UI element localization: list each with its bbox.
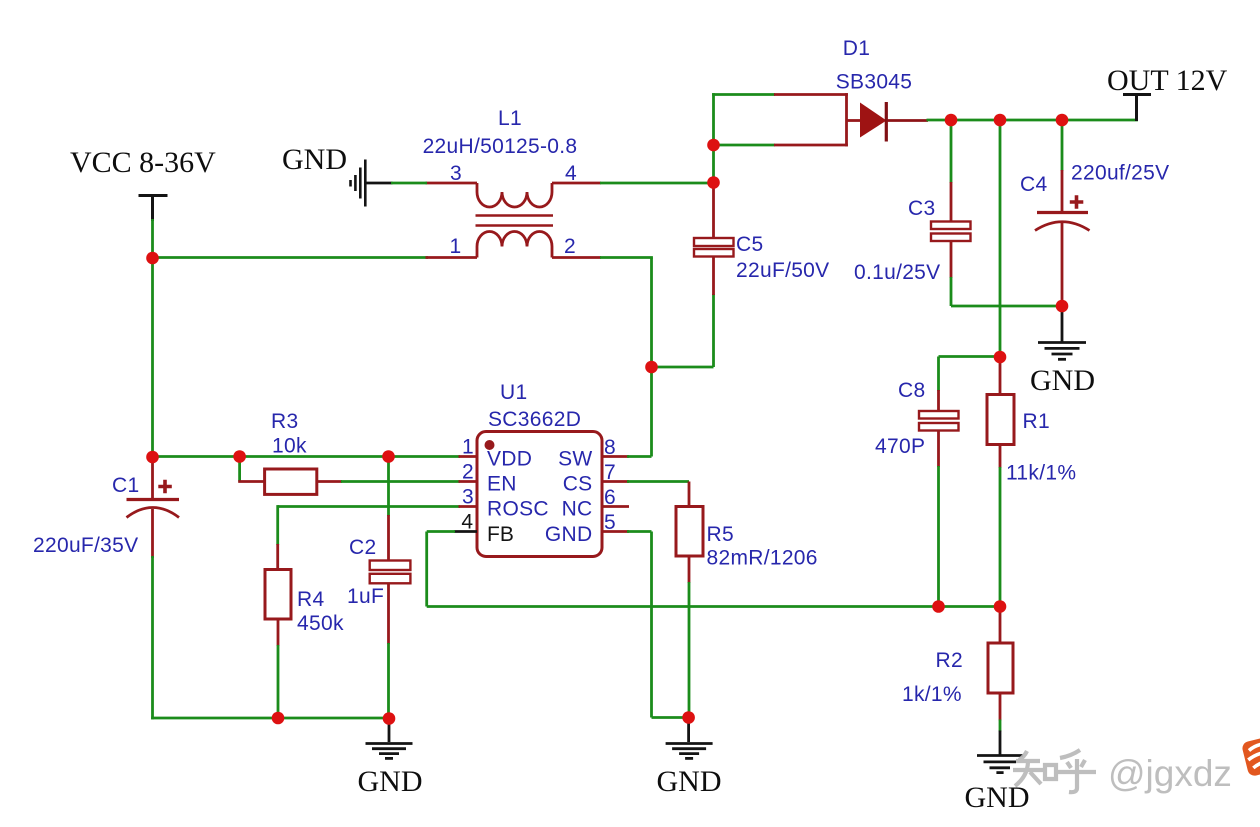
diode D1 cathode lead [886, 119, 928, 122]
svg-text:4: 4 [565, 162, 577, 185]
U1 pin 6 stub [602, 505, 629, 508]
U1 pin 4 stub (black) [454, 530, 477, 533]
junction dot OUT rail middle [994, 114, 1007, 127]
svg-text:0.1u/25V: 0.1u/25V [854, 261, 940, 284]
svg-text:CS: CS [563, 473, 593, 496]
svg-text:SC3662D: SC3662D [488, 408, 581, 431]
svg-text:22uF/50V: 22uF/50V [736, 259, 829, 282]
svg-text:R3: R3 [271, 410, 298, 433]
wire U1 pin8 SW to vertical riser [627, 455, 652, 458]
wire U1 pin5 GND to riser [627, 530, 652, 533]
junction dot C4 ground node [1056, 300, 1069, 313]
wire FB vertical drop [425, 532, 428, 607]
svg-text:3: 3 [462, 486, 474, 509]
resistor R4 [265, 505, 291, 646]
svg-text:C2: C2 [349, 536, 376, 559]
svg-text:22uH/50125-0.8: 22uH/50125-0.8 [423, 135, 578, 158]
svg-text:L1: L1 [498, 107, 522, 130]
wire R5 bottom to ground [688, 582, 691, 718]
wire pin5 vertical down [650, 532, 653, 718]
wire L1 pin2 to SW riser [600, 256, 653, 259]
svg-text:ROSC: ROSC [487, 498, 549, 521]
U1 pin 1 stub [459, 455, 478, 458]
svg-text:R2: R2 [936, 649, 963, 672]
svg-text:450k: 450k [297, 612, 344, 635]
svg-text:470P: 470P [875, 435, 925, 458]
svg-text:SW: SW [558, 448, 592, 471]
U1 pin 5 stub [602, 530, 629, 533]
wire GND symbol to L1 pin3 [391, 182, 427, 185]
wire R3 to U1 pin2 [341, 480, 460, 483]
wire VCC terminal to junction [151, 219, 154, 258]
IC U1 body [477, 432, 602, 557]
inductor L1 top winding pin lines [426, 182, 602, 185]
wire R1 bottom to FB node [999, 467, 1002, 608]
wire FB long horizontal to divider [427, 605, 1000, 608]
svg-text:8: 8 [604, 436, 616, 459]
svg-text:R4: R4 [297, 588, 324, 611]
diode D1 triangle [860, 103, 887, 138]
wire C3 to C4 ground node [951, 305, 1062, 308]
resistor R1 [987, 357, 1014, 468]
wire C8 branch horizontal [939, 355, 1001, 358]
wire D1 cathode to OUT [927, 119, 1138, 122]
wire C8 bottom to FB node [937, 466, 940, 607]
wire R4 bottom to ground rail [277, 645, 280, 718]
junction dot C2 tap [382, 450, 395, 463]
junction dot R4 ground rail [272, 712, 285, 725]
U1 pin-1 marker dot [485, 440, 495, 450]
svg-text:GND: GND [358, 765, 423, 798]
ground symbol under U1/R5 [666, 718, 713, 759]
inductor L1 core lines [476, 216, 554, 226]
svg-text:GND: GND [1030, 364, 1095, 397]
svg-text:NC: NC [562, 498, 593, 521]
capacitor C3 [931, 120, 971, 278]
U1 pin 2 stub [459, 480, 478, 483]
svg-text:1uF: 1uF [347, 585, 384, 608]
svg-text:D1: D1 [843, 37, 870, 60]
wire VCC rail vertical [151, 258, 154, 458]
wire loop bottom green part [712, 144, 775, 147]
wire SW node to C5 branch [652, 366, 714, 369]
wire loop top green part [712, 93, 775, 96]
junction dot VCC top [146, 252, 159, 265]
svg-text:11k/1%: 11k/1% [1006, 462, 1076, 485]
watermark 乎 character [1058, 750, 1096, 792]
svg-text:3: 3 [450, 162, 462, 185]
wire loop left vertical [712, 93, 715, 145]
U1 pin 3 stub [459, 505, 478, 508]
wire OUT rail down the middle branch [999, 120, 1002, 358]
svg-text:5: 5 [604, 511, 616, 534]
svg-text:U1: U1 [500, 381, 527, 404]
svg-text:C1: C1 [112, 474, 139, 497]
svg-text:7: 7 [604, 461, 616, 484]
capacitor C8 [919, 357, 959, 468]
diode D1 body loop dark segments [774, 93, 848, 146]
svg-text:C4: C4 [1020, 173, 1047, 196]
svg-text:R5: R5 [707, 523, 734, 546]
svg-text:2: 2 [564, 235, 576, 258]
svg-text:4: 4 [461, 511, 473, 534]
inductor L1 top winding [477, 183, 552, 207]
wire bottom ground rail [151, 717, 389, 720]
capacitor C2 [370, 457, 411, 645]
svg-text:VCC 8-36V: VCC 8-36V [70, 146, 216, 179]
wire L1 pin4 to C5 node [600, 182, 714, 185]
wire FB pin4 to the left [427, 530, 455, 533]
svg-text:220uf/25V: 220uf/25V [1071, 162, 1169, 185]
svg-text:1: 1 [450, 235, 462, 258]
junction dot FB C8 [932, 600, 945, 613]
junction dot C8 branch [994, 351, 1007, 364]
ground symbol at L1 pin3 (rotated) [351, 160, 393, 207]
inductor L1 bottom winding [477, 232, 552, 258]
svg-text:C8: C8 [898, 379, 925, 402]
junction dot FB divider [994, 600, 1007, 613]
svg-text:220uF/35V: 220uF/35V [33, 534, 138, 557]
U1 pin 7 stub [602, 480, 629, 483]
svg-text:10k: 10k [272, 435, 307, 458]
junction dot R3 tap [233, 450, 246, 463]
svg-text:6: 6 [604, 486, 616, 509]
svg-text:2: 2 [462, 461, 474, 484]
node OUT: terminal [1123, 95, 1151, 122]
svg-text:R1: R1 [1023, 410, 1050, 433]
junction dot pin5 ground [682, 711, 695, 724]
junction dot C5 top node [707, 176, 720, 189]
svg-text:EN: EN [487, 473, 517, 496]
wire C5 node up to loop corner [712, 144, 715, 183]
inductor L1 bottom winding pin lines [426, 256, 602, 259]
svg-text:GND: GND [965, 781, 1030, 814]
svg-text:1: 1 [462, 436, 474, 459]
wire C3 bottom [950, 277, 953, 306]
svg-text:82mR/1206: 82mR/1206 [707, 547, 818, 570]
junction dot OUT rail C4 [1056, 114, 1069, 127]
wire C1 bottom to ground rail [151, 556, 154, 719]
junction dot SW node [645, 361, 658, 374]
wire SW riser vertical [650, 258, 653, 457]
junction dot VDD rail left [146, 451, 159, 464]
junction dot loop bottom corner [707, 139, 720, 152]
capacitor C4 [1035, 120, 1090, 307]
svg-text:VDD: VDD [487, 448, 532, 471]
capacitor C1 [127, 457, 180, 558]
ground symbol under C2 [366, 719, 413, 759]
node VCC: terminal bar [139, 196, 168, 222]
wire R2 bottom short segment [999, 720, 1002, 732]
wire C5 bottom vertical [712, 294, 715, 367]
wire C2 bottom to ground [387, 643, 390, 719]
watermark 知 character [1013, 751, 1056, 786]
svg-text:SB3045: SB3045 [836, 71, 913, 94]
U1 pin 8 stub [602, 455, 629, 458]
svg-text:@jgxdz: @jgxdz [1108, 753, 1232, 794]
svg-text:GND: GND [282, 143, 347, 176]
wire VCC rail horizontal to L1 pin1 [153, 256, 429, 259]
resistor R3 [238, 457, 342, 494]
wire U1 pin3 to R4 [278, 505, 460, 508]
svg-text:C3: C3 [908, 197, 935, 220]
ground symbol under R2 [977, 731, 1023, 773]
resistor R2 [988, 607, 1013, 721]
svg-text:GND: GND [545, 523, 593, 546]
junction dot OUT rail C3 [945, 114, 958, 127]
wire U1 pin7 CS to R5 [627, 480, 689, 483]
watermark orange logo at right edge [1241, 734, 1260, 777]
wire VDD rail horizontal to U1 pin1 [153, 455, 461, 458]
svg-text:GND: GND [657, 765, 722, 798]
svg-text:1k/1%: 1k/1% [902, 683, 962, 706]
wire pin5 to ground junction [652, 716, 690, 719]
ground symbol under C4 [1038, 306, 1086, 359]
resistor R5 [676, 482, 703, 584]
diode D1 anode stub [847, 119, 862, 122]
diode D1 cathode bar [885, 102, 888, 142]
svg-text:OUT 12V: OUT 12V [1107, 64, 1228, 97]
junction dot C2 ground [383, 712, 396, 725]
capacitor C5 [694, 182, 734, 295]
svg-text:C5: C5 [736, 233, 763, 256]
svg-text:FB: FB [487, 523, 514, 546]
